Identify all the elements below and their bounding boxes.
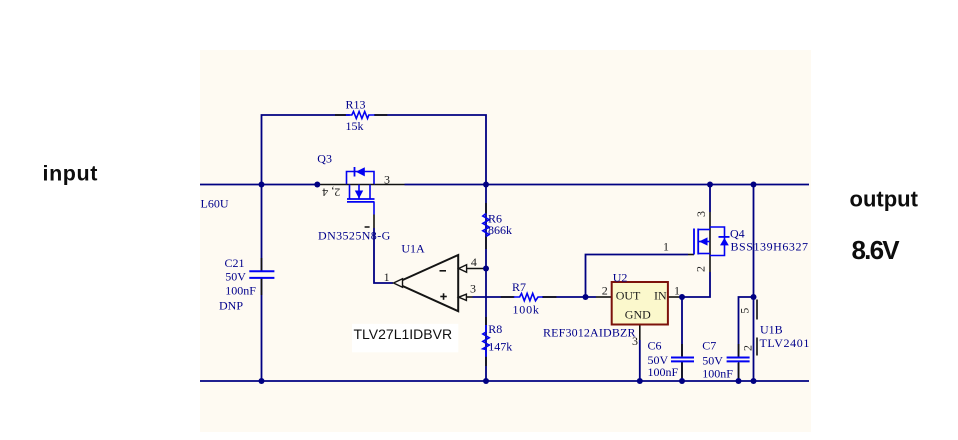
wire C7 jog <box>739 297 754 357</box>
svg-text:3: 3 <box>694 211 708 217</box>
voltage reference U2 <box>543 271 668 340</box>
wire R6 column pin4 node down through R8 to ground <box>485 269 487 382</box>
pin U2 pin2 (black) <box>596 296 612 298</box>
wire gate feed up-over to Q4 <box>586 255 689 298</box>
svg-text:15k: 15k <box>346 119 364 133</box>
wire op-amp pin3 to R7 <box>466 296 472 298</box>
svg-text:2: 2 <box>741 345 755 351</box>
svg-text:IN: IN <box>654 289 667 303</box>
pin U2 pin1 (black) <box>668 296 681 298</box>
junction input rail / Q3 gate node <box>314 182 320 188</box>
capacitor C7 <box>702 339 749 381</box>
junction ground / U2 GND <box>637 378 643 384</box>
wire C21 column upper <box>261 185 263 272</box>
svg-text:input: input <box>43 161 99 185</box>
svg-text:C7: C7 <box>702 339 716 353</box>
op-amp power part U1B <box>760 323 810 350</box>
wire input rail left <box>200 184 317 186</box>
svg-text:Q3: Q3 <box>317 152 332 166</box>
wire C7 to ground <box>738 363 740 381</box>
resistor R8 <box>483 317 513 366</box>
junction ground / C21 <box>259 378 265 384</box>
svg-text:50V: 50V <box>225 270 246 284</box>
svg-text:147k: 147k <box>488 340 512 354</box>
svg-text:Q4: Q4 <box>730 227 745 241</box>
pin U1B pin2 (black) <box>756 338 758 356</box>
junction ground / C7 <box>736 378 742 384</box>
svg-text:output: output <box>850 187 919 212</box>
svg-text:1: 1 <box>674 284 680 298</box>
Q3 gate pin overline mark <box>365 226 370 228</box>
wire C6 to ground <box>681 362 683 381</box>
svg-text:U1B: U1B <box>760 323 783 337</box>
junction ground / R8 <box>483 378 489 384</box>
svg-text:100nF: 100nF <box>648 365 679 379</box>
wire Q3 gate down to op-amp output <box>374 228 393 283</box>
junction ground / U1B column <box>751 378 757 384</box>
svg-text:100k: 100k <box>513 303 540 317</box>
svg-text:8.6V: 8.6V <box>852 235 901 265</box>
svg-text:TLV27L1IDBVR: TLV27L1IDBVR <box>354 326 453 342</box>
wire U1B column from output rail to ground <box>753 185 755 382</box>
svg-text:R13: R13 <box>346 98 366 112</box>
transistor Q4 <box>694 227 809 256</box>
sheet background <box>200 50 811 432</box>
svg-text:DN3525N8-G: DN3525N8-G <box>318 229 391 243</box>
wire C6 branch <box>681 297 683 356</box>
wire output rail <box>486 184 809 186</box>
pin U2 GND (black) <box>639 325 641 341</box>
resistor R13 <box>335 98 387 134</box>
svg-text:2, 4: 2, 4 <box>322 185 340 199</box>
wire R13 right to R6 column <box>374 115 486 185</box>
svg-text:TLV2401: TLV2401 <box>760 336 810 350</box>
svg-text:C21: C21 <box>225 256 245 270</box>
svg-text:BSS139H6327: BSS139H6327 <box>731 240 809 254</box>
svg-text:1: 1 <box>384 270 390 284</box>
svg-text:3: 3 <box>470 282 476 296</box>
wire R6 column rail to pin4 node <box>485 185 487 269</box>
pin U1B pin5 (black) <box>756 300 758 320</box>
resistor R6 <box>483 203 512 249</box>
svg-text:866k: 866k <box>488 223 512 237</box>
annotation white box <box>352 324 458 353</box>
wire C21 column lower <box>261 279 263 382</box>
wire Q3 gate pin (black) <box>373 215 375 229</box>
junction U1B column / C7 jog <box>751 294 757 300</box>
wire op-amp pin4 to node <box>466 268 486 270</box>
resistor R7 <box>501 280 557 317</box>
svg-text:U1A: U1A <box>401 241 425 255</box>
wire mid rail to R6 column <box>405 184 487 186</box>
svg-text:U2: U2 <box>613 271 628 285</box>
svg-text:5: 5 <box>738 308 752 314</box>
svg-text:3: 3 <box>632 334 638 348</box>
junction rail / R6 column <box>483 182 489 188</box>
wire Q3 pin 3 (black) <box>374 184 405 186</box>
svg-text:R7: R7 <box>512 280 526 294</box>
svg-text:2: 2 <box>693 266 707 272</box>
junction input rail / C21 column <box>259 182 265 188</box>
svg-text:L60U: L60U <box>201 196 229 210</box>
svg-text:R8: R8 <box>488 322 502 336</box>
junction rail / Q4 drain <box>707 182 713 188</box>
junction R7 / gate feed <box>583 294 589 300</box>
svg-text:REF3012AIDBZR: REF3012AIDBZR <box>543 326 636 340</box>
pin Q4 gate (black) <box>688 254 694 256</box>
junction rail / U1B column <box>751 182 757 188</box>
junction U2 pin1 / C6 <box>679 294 685 300</box>
svg-text:100nF: 100nF <box>225 284 256 298</box>
wire ground rail <box>200 380 809 382</box>
svg-text:3: 3 <box>384 173 390 187</box>
junction ground / C6 <box>679 378 685 384</box>
junction pin4 node <box>483 266 489 272</box>
svg-text:2: 2 <box>602 284 608 298</box>
svg-text:C6: C6 <box>648 339 662 353</box>
wire Q3 pin 2,4 (black) <box>317 184 346 186</box>
svg-text:GND: GND <box>625 308 651 322</box>
wire U2 pin1 node to Q4 source corner <box>681 272 710 297</box>
wire R7 to U2 pin2 <box>542 296 596 298</box>
op-amp U1A <box>394 241 467 311</box>
svg-text:4: 4 <box>471 255 477 269</box>
pin Q4 drain (black) <box>709 212 711 272</box>
wire U2 GND to ground <box>639 340 641 381</box>
svg-text:100nF: 100nF <box>702 367 733 381</box>
svg-text:1: 1 <box>663 240 669 254</box>
wire Q4 drain to output rail <box>709 185 711 213</box>
svg-text:OUT: OUT <box>616 289 641 303</box>
capacitor C6 <box>648 339 695 380</box>
wire left column x261.5 top (to R13) <box>262 115 350 185</box>
transistor Q3 <box>317 152 390 243</box>
svg-text:50V: 50V <box>702 354 723 368</box>
capacitor C21 <box>219 256 274 313</box>
svg-text:DNP: DNP <box>219 299 243 313</box>
